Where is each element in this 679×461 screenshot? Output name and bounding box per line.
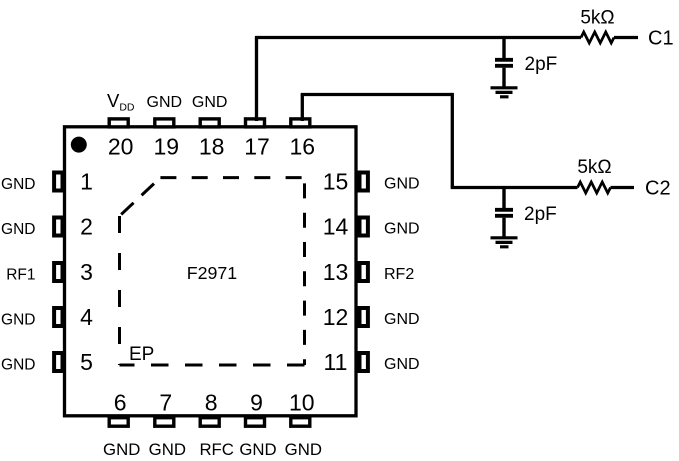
svg-text:F2971: F2971	[187, 263, 238, 283]
exposed pad EP outline right edge	[303, 178, 306, 365]
svg-text:RFC: RFC	[199, 440, 234, 459]
pin 11 pad	[360, 353, 368, 371]
pin 16 number	[290, 134, 316, 160]
svg-text:2: 2	[80, 214, 93, 240]
svg-text:GND: GND	[192, 94, 228, 111]
label 5kOhm (R1)	[580, 8, 614, 29]
label F2971	[187, 263, 238, 283]
pin 6 pad	[109, 418, 128, 427]
svg-text:GND: GND	[384, 356, 420, 373]
svg-text:17: 17	[244, 134, 270, 160]
pin 6 number	[114, 390, 127, 416]
svg-text:10: 10	[289, 390, 315, 416]
pin 10 label GND	[285, 440, 322, 459]
pin 5 number	[80, 349, 93, 375]
svg-text:GND: GND	[384, 221, 420, 238]
node C1	[648, 28, 674, 50]
pin 1 indicator dot	[71, 137, 87, 153]
pin 7 number	[159, 390, 172, 416]
pin 2 label GND	[1, 221, 35, 238]
capacitor C 2pF (C2 net) top stem	[502, 188, 505, 209]
svg-text:9: 9	[250, 390, 263, 416]
wire C1 net horizontal	[255, 36, 581, 39]
svg-text:15: 15	[323, 169, 349, 195]
label 2pF (C1 net)	[525, 54, 558, 75]
svg-text:5kΩ: 5kΩ	[577, 157, 611, 178]
pin 19 number	[154, 134, 180, 160]
svg-text:RF2: RF2	[384, 266, 414, 283]
pin 4 pad	[54, 308, 62, 326]
wire R2 to node C2	[611, 186, 635, 189]
pin 7 pad	[155, 418, 174, 427]
label 2pF (C2 net)	[524, 204, 557, 225]
svg-text:20: 20	[108, 134, 134, 160]
svg-text:C2: C2	[645, 178, 671, 200]
pin 13 pad	[360, 263, 368, 281]
svg-text:19: 19	[154, 134, 180, 160]
pin 2 pad	[54, 218, 62, 236]
wire C2 net horizontal	[451, 186, 578, 189]
svg-text:GND: GND	[384, 176, 420, 193]
pin 12 pad	[360, 308, 368, 326]
pin 12 label GND	[384, 311, 420, 328]
pin 15 label GND	[384, 176, 420, 193]
exposed pad EP outline chamfer	[120, 178, 161, 216]
pin 8 pad	[200, 418, 219, 427]
exposed pad EP outline bottom edge	[120, 364, 305, 367]
pin 2 number	[80, 214, 93, 240]
svg-text:GND: GND	[285, 440, 322, 459]
pin 13 number	[323, 259, 349, 285]
wire pin 17 up to C1 net	[255, 38, 258, 122]
svg-text:16: 16	[290, 134, 316, 160]
wire R1 to node C1	[614, 36, 638, 39]
svg-text:5kΩ: 5kΩ	[580, 8, 614, 29]
svg-text:GND: GND	[1, 176, 35, 193]
pin 11 label GND	[384, 356, 420, 373]
svg-text:GND: GND	[149, 440, 186, 459]
wire vertical down to C2 net	[451, 93, 454, 188]
pin 16 pad	[291, 119, 310, 127]
pin 4 number	[80, 304, 93, 330]
pin 15 pad	[360, 173, 368, 191]
resistor R2 5kOhm	[578, 182, 611, 193]
pin 9 label GND	[239, 440, 276, 459]
wire pin16 horizontal to right	[301, 93, 453, 96]
ground (C1 net)	[491, 88, 518, 97]
svg-text:GND: GND	[147, 94, 183, 111]
pin 8 label RFC	[199, 440, 234, 459]
svg-text:7: 7	[159, 390, 172, 416]
pin 14 pad	[360, 218, 368, 236]
svg-text:1: 1	[80, 169, 93, 195]
svg-text:GND: GND	[103, 440, 140, 459]
pin 17 number	[244, 134, 270, 160]
svg-text:12: 12	[323, 304, 349, 330]
pin 10 pad	[291, 418, 310, 427]
pin 7 label GND	[149, 440, 186, 459]
svg-text:C1: C1	[648, 28, 674, 50]
pin 3 pad	[54, 263, 62, 281]
pin 8 number	[205, 390, 218, 416]
pin 3 label RF1	[6, 266, 35, 283]
resistor R1 5kOhm	[581, 32, 614, 43]
svg-text:GND: GND	[239, 440, 276, 459]
pin 20 number	[108, 134, 134, 160]
svg-text:14: 14	[323, 214, 349, 240]
svg-text:GND: GND	[1, 221, 35, 238]
pin 10 number	[289, 390, 315, 416]
svg-text:2pF: 2pF	[525, 54, 558, 75]
pin 1 pad	[54, 173, 62, 191]
pin 19 pad	[155, 119, 174, 127]
svg-text:8: 8	[205, 390, 218, 416]
capacitor bottom stem	[502, 68, 505, 87]
exposed pad EP outline top edge	[160, 176, 304, 179]
capacitor C 2pF (C1 net) top stem	[502, 38, 505, 59]
capacitor C 2pF (C2 net) plates	[495, 210, 513, 216]
svg-text:RF1: RF1	[6, 266, 35, 283]
pin 20 label VDD	[107, 90, 135, 114]
pin 11 number	[324, 349, 348, 375]
label 5kOhm (R2)	[577, 157, 611, 178]
label EP	[129, 344, 154, 365]
svg-text:13: 13	[323, 259, 349, 285]
wire pin 16 up	[301, 95, 304, 122]
svg-text:18: 18	[199, 134, 225, 160]
capacitor C 2pF (C1 net) plates	[495, 60, 513, 66]
pin 6 label GND	[103, 440, 140, 459]
ground (C2 net)	[491, 238, 518, 247]
svg-text:5: 5	[80, 349, 93, 375]
svg-text:GND: GND	[1, 356, 35, 373]
pin 14 label GND	[384, 221, 420, 238]
pin 12 number	[323, 304, 349, 330]
pin 9 pad	[246, 418, 265, 427]
capacitor bottom stem	[502, 218, 505, 237]
svg-text:4: 4	[80, 304, 93, 330]
svg-text:6: 6	[114, 390, 127, 416]
pin 3 number	[80, 259, 93, 285]
pin 4 label GND	[1, 311, 35, 328]
pin 19 label GND	[147, 94, 183, 111]
pin 1 label GND	[1, 176, 35, 193]
pin 17 pad	[246, 119, 265, 127]
exposed pad EP outline left edge	[118, 216, 121, 365]
pin 14 number	[323, 214, 349, 240]
pin 18 label GND	[192, 94, 228, 111]
IC U1 F2971 QFN-20 package body	[65, 127, 357, 416]
pin 5 label GND	[1, 356, 35, 373]
svg-text:3: 3	[80, 259, 93, 285]
svg-text:11: 11	[324, 349, 348, 375]
svg-text:GND: GND	[384, 311, 420, 328]
pin 5 pad	[54, 353, 62, 371]
pin 15 number	[323, 169, 349, 195]
pin 18 pad	[200, 119, 219, 127]
svg-text:EP: EP	[129, 344, 154, 365]
svg-text:GND: GND	[1, 311, 35, 328]
pin 1 number	[80, 169, 93, 195]
pin 9 number	[250, 390, 263, 416]
pin 20 pad	[109, 119, 128, 127]
svg-text:VDD: VDD	[107, 90, 135, 114]
svg-text:2pF: 2pF	[524, 204, 557, 225]
node C2	[645, 178, 671, 200]
pin 18 number	[199, 134, 225, 160]
pin 13 label RF2	[384, 266, 414, 283]
